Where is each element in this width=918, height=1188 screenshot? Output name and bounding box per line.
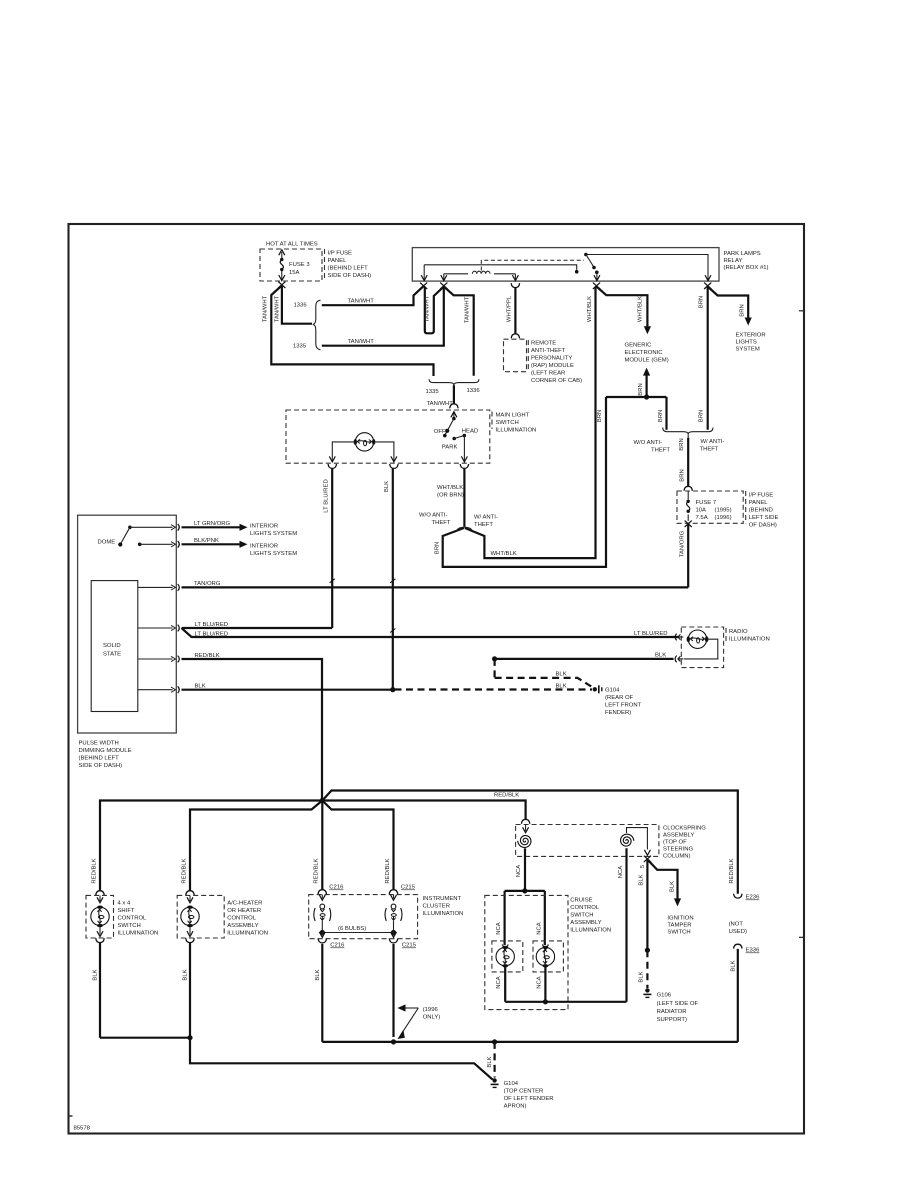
svg-text:SIDE OF DASH): SIDE OF DASH) (328, 273, 372, 279)
lamp DS2 radio illumination (687, 630, 709, 648)
svg-text:(REAR OF: (REAR OF (605, 695, 634, 701)
svg-text:TAN/WHT: TAN/WHT (348, 299, 375, 305)
wire RED/BLK hub to cluster C215 (322, 801, 393, 891)
brace splitting circuit 1335/1336 (313, 300, 321, 350)
svg-text:1335: 1335 (293, 344, 307, 350)
connector cap into RAP module (511, 334, 519, 338)
svg-text:W/O ANTI-: W/O ANTI- (634, 440, 663, 446)
ignition tamper switch label (667, 916, 693, 936)
merge brace BRN wires (663, 428, 713, 435)
svg-text:(RAP) MODULE: (RAP) MODULE (531, 363, 574, 369)
PWD module box (78, 515, 177, 733)
svg-text:LIGHTS SYSTEM: LIGHTS SYSTEM (250, 551, 297, 557)
svg-text:C216: C216 (329, 885, 344, 891)
svg-text:ASSEMBLY: ASSEMBLY (227, 923, 258, 929)
wire WHT/PPL relay T3 to RAP module (514, 288, 516, 334)
wire RED/BLK hub long to E236 (322, 791, 738, 894)
relay coil L1 (444, 271, 516, 274)
radio illumination label (729, 629, 770, 643)
svg-text:RED/BLK: RED/BLK (195, 653, 220, 659)
svg-text:NCA: NCA (496, 922, 502, 935)
cruise exit leads (505, 966, 545, 1002)
lamp cluster left (314, 904, 331, 921)
svg-text:BLK: BLK (731, 960, 737, 971)
wire BLK pin5 down (646, 860, 648, 951)
wire BLK to ignition tamper switch (647, 860, 681, 907)
clockspring coil right return NCA (625, 848, 627, 1002)
svg-text:G106: G106 (657, 993, 672, 999)
svg-text:NCA: NCA (536, 922, 542, 935)
svg-text:LEFT FRONT: LEFT FRONT (605, 703, 642, 709)
cluster exit arrows (319, 932, 396, 938)
svg-text:BLK: BLK (315, 969, 321, 980)
svg-text:ILLUMINATION: ILLUMINATION (496, 428, 537, 434)
relay switch fixed contact (575, 270, 579, 274)
svg-text:C215: C215 (401, 885, 416, 891)
svg-text:BRN: BRN (658, 410, 664, 422)
wire TAN/WHT fuse3 to bottom feed (271, 286, 433, 377)
svg-text:1336: 1336 (467, 388, 481, 394)
svg-text:SWITCH: SWITCH (118, 923, 141, 929)
svg-text:BRN: BRN (740, 304, 746, 316)
exterior lights arrowhead (745, 318, 752, 326)
svg-text:ONLY): ONLY) (423, 1015, 441, 1021)
svg-text:SWITCH: SWITCH (496, 420, 519, 426)
wire BLK switch to ground junction (392, 468, 394, 689)
GEM module label (625, 343, 669, 364)
split brace at switch output (457, 527, 473, 530)
connector cap into fuse panel (684, 486, 692, 490)
crossover ticks BLK wire (390, 579, 395, 633)
svg-text:(BEHIND: (BEHIND (749, 508, 773, 514)
svg-text:BLK: BLK (639, 874, 645, 885)
svg-text:SUPPORT): SUPPORT) (657, 1017, 687, 1023)
label WHT/BLK (OR BRN) (437, 485, 464, 499)
svg-text:DIMMING MODULE: DIMMING MODULE (79, 748, 132, 754)
cluster left lead to bus (321, 921, 323, 933)
svg-text:NCA: NCA (536, 976, 542, 989)
lamp DS1 main light switch illumination (354, 433, 376, 451)
svg-text:C215: C215 (402, 943, 417, 949)
PWD pin 4 wire (138, 625, 180, 632)
4x4 exit arrow (97, 927, 103, 937)
svg-text:1336: 1336 (294, 303, 308, 309)
junction dot cluster left (320, 930, 325, 935)
svg-text:RED/BLK: RED/BLK (729, 858, 735, 883)
svg-text:A/C-HEATER: A/C-HEATER (227, 901, 262, 907)
junction dot C215 bus (391, 1039, 396, 1044)
connector X at relay terminal 1 (420, 283, 427, 289)
wire BRN merged to fuse 7 (687, 438, 689, 487)
instrument cluster box (309, 895, 418, 939)
svg-text:TAN/WHT: TAN/WHT (348, 339, 375, 345)
svg-text:OFF: OFF (434, 429, 446, 435)
PWD pin 2 wire (140, 541, 180, 548)
label SOLID STATE (103, 643, 121, 658)
ground G104 bottom label (504, 1081, 554, 1110)
4x4 label (118, 901, 159, 937)
lamp cruise left (496, 946, 514, 968)
svg-text:CONTROL: CONTROL (118, 916, 148, 922)
connector cap into clockspring (521, 819, 529, 823)
svg-text:INTERIOR: INTERIOR (250, 544, 278, 550)
wire LT BLU/RED pin4 to switch (182, 627, 333, 629)
svg-text:PULSE WIDTH: PULSE WIDTH (79, 741, 119, 747)
connector cup E236 (734, 894, 742, 898)
svg-text:FENDER): FENDER) (605, 710, 631, 716)
bus 4x4 to A/C (100, 1037, 190, 1039)
connector cup C215 bottom (389, 939, 397, 943)
wire RED/BLK hub to 4x4 branch (100, 801, 322, 892)
relay wire common to terminal 5 (586, 255, 708, 280)
svg-text:WHT/PPL: WHT/PPL (507, 295, 513, 322)
svg-text:ILLUMINATION: ILLUMINATION (227, 931, 268, 937)
cluster entry arrow right (391, 895, 397, 901)
svg-text:(6 BULBS): (6 BULBS) (338, 926, 366, 932)
fuse F7 value labels (696, 500, 732, 521)
svg-text:LIGHTS SYSTEM: LIGHTS SYSTEM (250, 531, 297, 537)
svg-text:GENERIC: GENERIC (625, 343, 653, 349)
svg-text:COLUMN): COLUMN) (663, 854, 691, 860)
junction dot cruise feed (522, 888, 527, 893)
svg-text:ILLUMINATION: ILLUMINATION (570, 928, 611, 934)
cluster right lead to bus (393, 921, 395, 933)
svg-text:RED/BLK: RED/BLK (385, 858, 391, 883)
svg-text:TAN/WHT: TAN/WHT (275, 295, 281, 322)
svg-text:10A: 10A (696, 508, 707, 514)
connector X at relay terminal 2 (440, 283, 447, 289)
cruise bulb box right (533, 941, 563, 972)
relay armature linkage (dashed) (481, 260, 584, 270)
svg-text:THEFT: THEFT (474, 522, 493, 528)
switch SW1 pivot (452, 417, 456, 421)
svg-text:ASSEMBLY: ASSEMBLY (570, 920, 601, 926)
wire A/C junction down to lower bus (190, 1038, 493, 1080)
label (1996 ONLY) (423, 1007, 441, 1021)
PWD pin 6 wire (138, 686, 180, 693)
frame tick marks (70, 311, 804, 1116)
label W/ ANTI-THEFT lower (474, 515, 498, 529)
fuse F3 value label (289, 262, 310, 276)
svg-text:SWITCH: SWITCH (667, 930, 690, 936)
page frame border (69, 224, 805, 1134)
clockspring coil left (518, 836, 531, 848)
label W/ ANTI-THEFT (700, 439, 725, 453)
switch output lead (461, 436, 467, 462)
svg-text:PARK: PARK (442, 444, 458, 450)
interior lights system label 2 (250, 544, 297, 558)
wire RED/BLK hub to cluster C216 (321, 801, 323, 891)
svg-text:BRN: BRN (699, 410, 705, 422)
wire BLK pin6 (182, 689, 393, 691)
svg-text:TAN/WHT: TAN/WHT (262, 295, 268, 322)
connector X below fuse 7 (685, 521, 692, 527)
junction dot cluster right (391, 930, 396, 935)
svg-text:CLUSTER: CLUSTER (423, 904, 451, 910)
svg-text:BRN: BRN (679, 438, 685, 450)
fuse F7 element (687, 500, 690, 513)
svg-text:WHT/BLK: WHT/BLK (437, 485, 463, 491)
RAP module label (531, 341, 582, 385)
svg-text:(1996: (1996 (423, 1007, 439, 1013)
4x4 entry arrow (97, 895, 103, 902)
junction dot GEM BRN (644, 394, 649, 399)
svg-text:MAIN LIGHT: MAIN LIGHT (496, 413, 530, 419)
dashed BLK drop to G104 (494, 1042, 496, 1078)
connector cap A/C (186, 891, 194, 895)
svg-text:CONTROL: CONTROL (227, 916, 257, 922)
connector cup A/C (186, 938, 194, 942)
label W/O ANTI-THEFT (634, 440, 671, 454)
connector X pin 5 (644, 856, 651, 862)
wire TAN/WHT fuse3 to brace (282, 287, 312, 324)
I/P fuse panel box (fuse 7) (677, 491, 746, 523)
svg-text:SOLID: SOLID (103, 643, 121, 649)
svg-text:NCA: NCA (496, 976, 502, 989)
dashed BLK to G106 (646, 950, 648, 988)
svg-text:HOT AT ALL TIMES: HOT AT ALL TIMES (266, 242, 318, 248)
wire 1335 TAN/WHT to relay terminal 2 (322, 287, 444, 346)
wire RED/BLK hub to clockspring (322, 801, 525, 820)
svg-text:RADIATOR: RADIATOR (657, 1009, 687, 1015)
dashed BLK drop from radio dot (494, 659, 496, 678)
wire BRN relay T5 down to brace (707, 287, 709, 430)
wire BLK radio (495, 658, 674, 660)
relay terminal 5 arrowhead (705, 275, 711, 281)
wire WHT/BLK to GEM arrow (597, 287, 648, 327)
junction dot RED/BLK hub (320, 798, 325, 803)
wire TAN/WHT relay T2 to gather brace (444, 287, 474, 376)
relay coil wire T1 to switch contact (424, 265, 577, 270)
svg-text:BLK: BLK (183, 969, 189, 980)
radio illumination box (681, 627, 726, 668)
connector cap into main light switch (450, 404, 458, 408)
svg-text:LT BLU/RED: LT BLU/RED (195, 632, 229, 638)
svg-text:BRN: BRN (699, 296, 705, 308)
svg-text:(OR BRN): (OR BRN) (437, 493, 464, 499)
svg-text:THEFT: THEFT (700, 447, 719, 453)
clockspring box (516, 825, 659, 857)
crossover tick LT BLU/RED over TAN/ORG (330, 579, 335, 583)
svg-text:ELECTRONIC: ELECTRONIC (625, 350, 664, 356)
svg-text:(BEHIND LEFT: (BEHIND LEFT (328, 266, 369, 272)
svg-text:BLK: BLK (93, 969, 99, 980)
svg-text:PERSONALITY: PERSONALITY (531, 356, 572, 362)
svg-text:RED/BLK: RED/BLK (181, 858, 187, 883)
instrument cluster label (423, 896, 464, 917)
svg-text:TAN/WHT: TAN/WHT (425, 295, 431, 322)
svg-text:CORNER OF CAB): CORNER OF CAB) (531, 378, 582, 384)
wire 1336 TAN/WHT to relay terminal 1 (322, 286, 424, 305)
wire BLK C216 down (321, 944, 323, 1042)
cluster internal bus (322, 932, 393, 934)
main light switch box (286, 410, 492, 463)
connector cap E336 (734, 944, 742, 948)
lamp DS1 right lead (374, 442, 397, 462)
svg-text:APRON): APRON) (504, 1104, 527, 1110)
RAP module box (504, 339, 529, 372)
A/C control box (177, 895, 224, 938)
cruise control box (485, 895, 568, 1009)
ground G106 (643, 988, 651, 997)
svg-text:TAN/WHT: TAN/WHT (465, 296, 471, 323)
A/C label (227, 901, 268, 937)
interior lights system label 1 (250, 524, 297, 538)
svg-text:EXTERIOR: EXTERIOR (736, 333, 766, 339)
wire BLK/PNK to interior lights (182, 541, 248, 548)
svg-text:W/ ANTI-: W/ ANTI- (701, 439, 725, 445)
svg-text:TAN/WHT: TAN/WHT (427, 401, 454, 407)
svg-text:ILLUMINATION: ILLUMINATION (118, 931, 159, 937)
svg-text:RED/BLK: RED/BLK (494, 793, 519, 799)
relay switch output lead (594, 272, 600, 280)
svg-text:G104: G104 (605, 688, 620, 694)
relay K1 box (412, 248, 719, 282)
relay switch common + blade (584, 253, 598, 274)
radio pin BLK (675, 656, 683, 663)
wire BRN GEM split bar (606, 396, 667, 398)
GEM feed arrowhead (644, 326, 651, 334)
lamp DS1 left lead (329, 442, 355, 462)
svg-text:BLK: BLK (556, 672, 567, 678)
lamp cluster right (385, 904, 402, 921)
svg-text:LEFT SIDE: LEFT SIDE (749, 515, 779, 521)
cruise feed bar (505, 891, 545, 945)
wire BLK A/C down (189, 943, 191, 1038)
svg-text:RELAY: RELAY (724, 258, 743, 264)
wire WHT/BLK main vertical (465, 287, 596, 559)
svg-text:RED/BLK: RED/BLK (314, 858, 320, 883)
svg-text:(TOP CENTER: (TOP CENTER (504, 1089, 544, 1095)
svg-text:(1995): (1995) (715, 508, 732, 514)
svg-text:PARK LAMPS: PARK LAMPS (724, 251, 761, 257)
I/P fuse panel label (fuse 7) (749, 493, 779, 529)
wire BRN w/ anti-theft branch to brace (665, 397, 667, 430)
ground G104 upper label (605, 688, 642, 717)
wire LT BLU/RED switch to module (331, 468, 333, 628)
svg-text:4 x 4: 4 x 4 (118, 901, 131, 907)
wire TAN/WHT combined to main light switch (453, 385, 455, 404)
svg-text:ILLUMINATION: ILLUMINATION (729, 637, 770, 643)
svg-text:I/P FUSE: I/P FUSE (328, 251, 353, 257)
wire WHT/BLK(OR BRN) switch output (463, 468, 465, 526)
svg-text:WHT/BLK: WHT/BLK (587, 296, 593, 322)
cluster entry arrow left (319, 895, 325, 901)
svg-text:ILLUMINATION: ILLUMINATION (423, 911, 464, 917)
PWD module label (79, 741, 132, 770)
svg-text:NCA: NCA (618, 866, 624, 879)
cruise entry arrows (502, 945, 548, 951)
wire BLK C215 down (1996 only) (392, 944, 394, 1037)
svg-text:IGNITION: IGNITION (667, 916, 693, 922)
svg-text:OR HEATER: OR HEATER (227, 908, 261, 914)
wire TAN/ORG fuse7 down to module feed (687, 525, 689, 588)
svg-text:BRN: BRN (434, 542, 440, 554)
svg-text:PANEL: PANEL (749, 500, 769, 506)
svg-text:(NOT: (NOT (729, 922, 744, 928)
svg-text:BLK: BLK (556, 684, 567, 690)
svg-text:USED): USED) (729, 929, 747, 935)
svg-text:W/ ANTI-: W/ ANTI- (474, 515, 498, 521)
svg-text:THEFT: THEFT (432, 520, 451, 526)
clockspring coil right (621, 834, 634, 846)
callout (1996 ONLY) arrows (398, 1004, 419, 1038)
ground G106 label (657, 993, 699, 1024)
svg-text:OF LEFT FENDER: OF LEFT FENDER (504, 1096, 554, 1102)
svg-text:TAMPER: TAMPER (667, 923, 691, 929)
svg-text:E236: E236 (746, 895, 760, 901)
switch contacts PARK+HEAD (452, 434, 466, 441)
clockspring label (663, 826, 706, 860)
relay terminal 1 lead (421, 265, 427, 281)
dashed BLK lower to ground (395, 688, 593, 690)
svg-text:(BEHIND LEFT: (BEHIND LEFT (79, 756, 120, 762)
GEM output arrow up (643, 368, 650, 397)
ground G104 (rear of left front fender) (593, 685, 602, 693)
svg-text:85578: 85578 (74, 1126, 91, 1132)
svg-text:BRN: BRN (679, 469, 685, 481)
wire LT BLU/RED pin4 to radio (182, 628, 679, 637)
A/C entry arrow (187, 895, 193, 902)
svg-text:INSTRUMENT: INSTRUMENT (423, 896, 462, 902)
wire BRN to exterior lights (708, 287, 749, 318)
svg-text:E336: E336 (746, 948, 760, 954)
svg-text:TAN/ORG: TAN/ORG (679, 530, 685, 557)
svg-text:LT BLU/RED: LT BLU/RED (634, 631, 668, 637)
svg-text:CONTROL: CONTROL (570, 905, 600, 911)
label W/O ANTI-THEFT lower (419, 513, 451, 527)
connector cup C216 bottom (318, 939, 326, 943)
lamp DS3 4x4 illumination (91, 906, 109, 928)
connector below fuse 3 (278, 282, 285, 288)
svg-text:THEFT: THEFT (651, 448, 670, 454)
svg-text:(LEFT REAR: (LEFT REAR (531, 371, 565, 377)
dome switch (118, 526, 141, 547)
svg-text:FUSE 3: FUSE 3 (289, 262, 310, 268)
svg-text:CRUISE: CRUISE (570, 898, 592, 904)
svg-text:BLK: BLK (487, 1056, 493, 1067)
I/P fuse panel label (328, 251, 372, 280)
clockspring coil left output (524, 848, 526, 891)
clockspring entry arrow (523, 825, 529, 833)
svg-text:PANEL: PANEL (328, 258, 348, 264)
svg-text:BLK: BLK (655, 653, 666, 659)
junction dot radio BLK (492, 656, 497, 661)
switch SW1 blade to OFF (443, 419, 454, 438)
PWD pin 3 wire (138, 584, 180, 591)
relay label (724, 251, 769, 271)
svg-text:BLK: BLK (638, 971, 644, 982)
connector cup at relay terminal 3 (511, 283, 519, 287)
svg-text:CLOCKSPRING: CLOCKSPRING (663, 826, 706, 832)
4x4 switch box (86, 895, 114, 938)
relay terminal 3 lead (512, 274, 518, 281)
svg-text:WHT/BLK: WHT/BLK (491, 551, 517, 557)
svg-text:BLK: BLK (669, 881, 675, 892)
svg-text:NCA: NCA (516, 865, 522, 878)
fuse F3 feed wire (279, 250, 285, 281)
svg-text:LIGHTS: LIGHTS (736, 340, 757, 346)
svg-text:SHIFT: SHIFT (118, 908, 135, 914)
junction dot G104 drop (492, 1039, 497, 1044)
svg-text:LT GRN/ORG: LT GRN/ORG (194, 521, 231, 527)
wire TAN/ORG long horizontal (182, 586, 689, 588)
svg-text:(1996): (1996) (715, 515, 732, 521)
svg-text:C216: C216 (330, 943, 345, 949)
merge brace tick (687, 434, 689, 437)
gathering brace 1335+1336 (429, 379, 479, 385)
main BLK bus to G104 (322, 1041, 738, 1043)
